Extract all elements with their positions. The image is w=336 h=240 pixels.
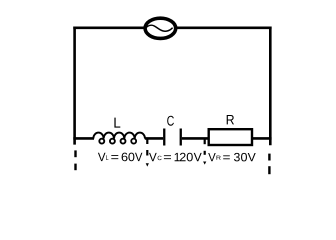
arrowhead below C-R node [203,162,206,165]
label V_L = 60V [98,153,142,162]
wire capacitor to resistor [182,137,208,140]
label R [227,115,234,124]
label C [167,116,174,126]
ac source [144,18,175,38]
inductor L coil [93,133,145,144]
left wire [73,27,76,145]
capacitor C plates [164,129,181,146]
bottom wire segment left of inductor [73,137,94,140]
dashed reference line below left node [74,150,76,170]
label V_C = 120V [149,153,202,162]
resistor R box [209,129,252,145]
wire resistor to right wire [252,137,272,140]
wire inductor to capacitor [145,137,163,140]
arrowhead below L-C node [146,163,149,166]
label L [114,118,120,128]
dashed reference line below right node [268,154,270,175]
dashed reference line below L-C node [146,140,148,156]
dashed reference line below C-R node [204,140,206,155]
right wire [269,27,272,146]
label V_R = 30V [208,153,256,162]
top wire [73,26,271,29]
